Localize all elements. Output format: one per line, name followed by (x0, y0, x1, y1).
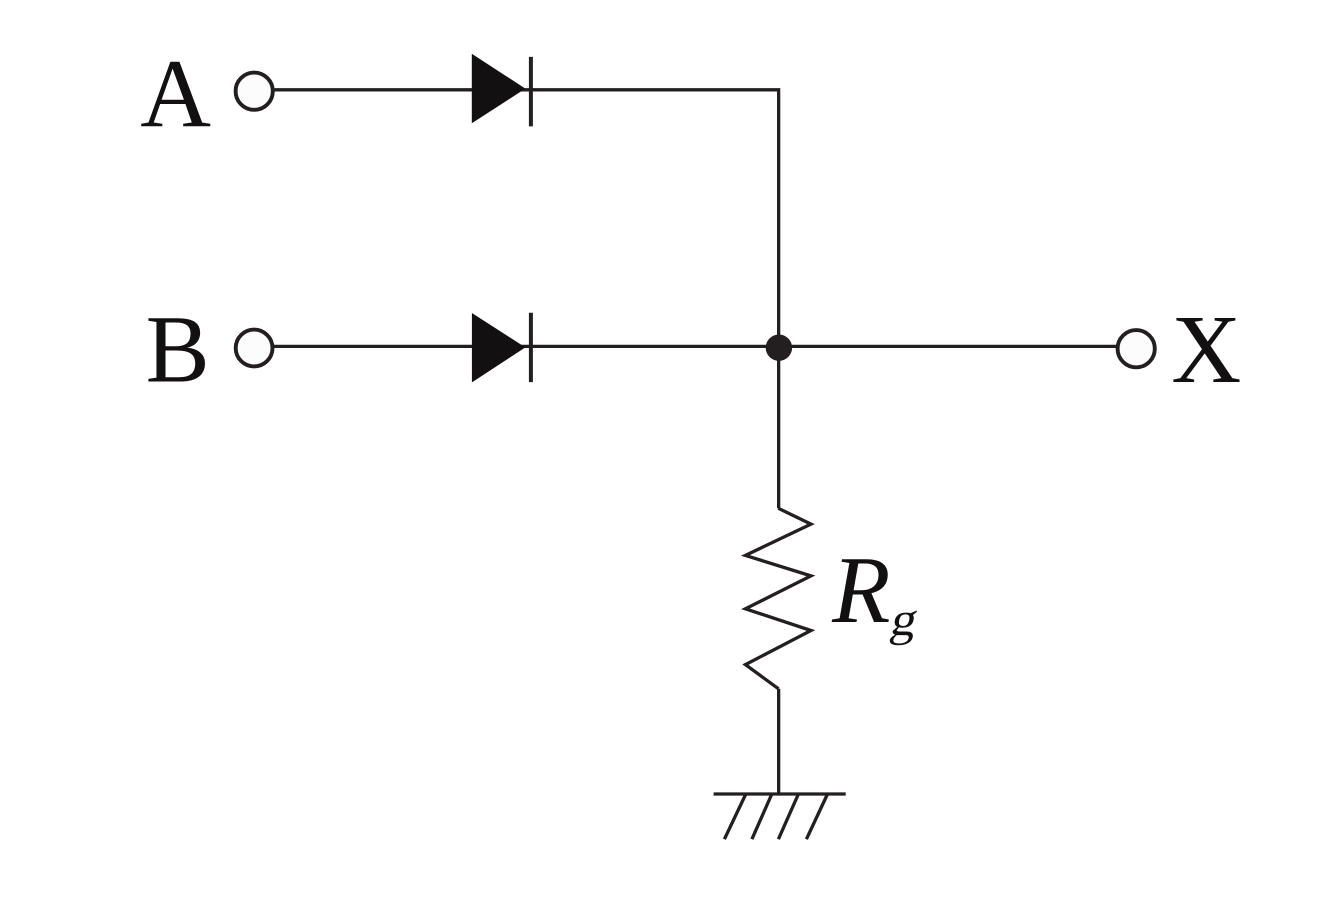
svg-text:A: A (140, 41, 211, 149)
svg-text:B: B (146, 296, 210, 403)
svg-text:R: R (831, 537, 890, 643)
svg-text:X: X (1171, 296, 1241, 403)
